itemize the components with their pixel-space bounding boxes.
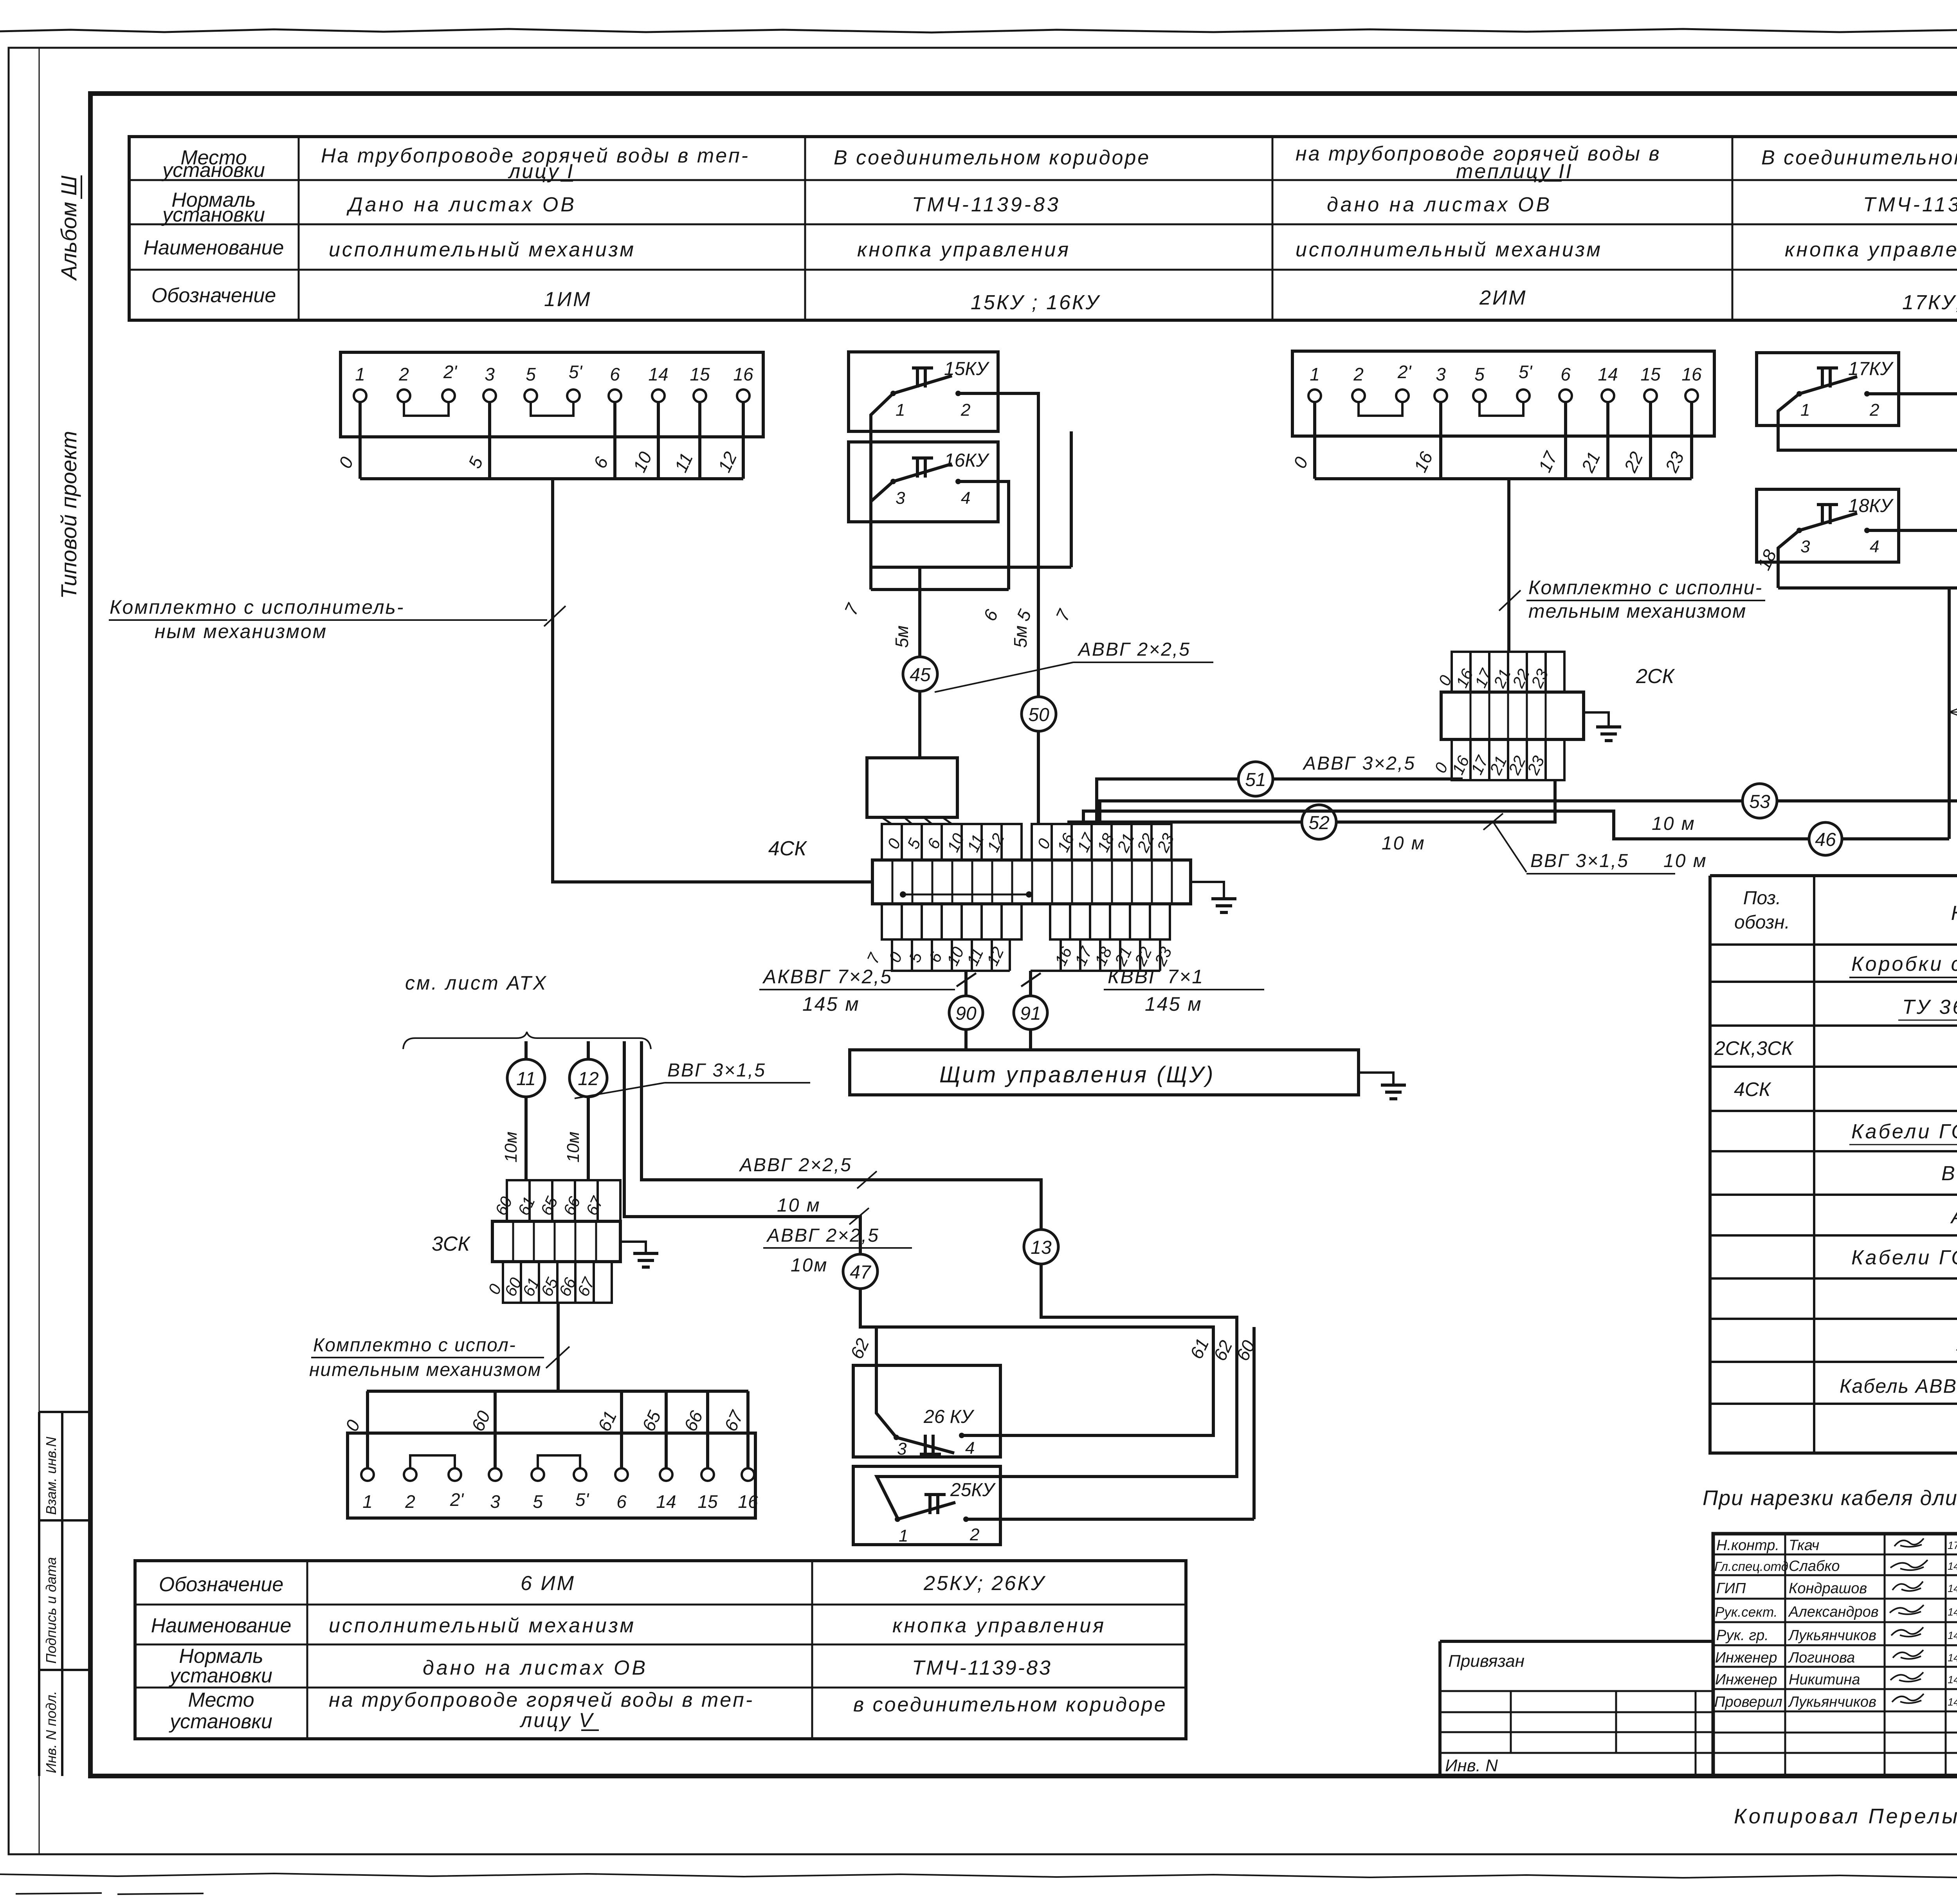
upper tabs <box>507 1180 620 1221</box>
wire 47 to 26КУ contact 3 <box>860 1289 896 1437</box>
bus under 16КУ <box>871 588 1009 591</box>
wire 15КУ contact1 down <box>871 393 893 567</box>
svg-text:16: 16 <box>738 1491 758 1512</box>
svg-text:14.01.86: 14.01.86 <box>1948 1583 1957 1594</box>
svg-text:14: 14 <box>648 364 668 384</box>
upper tabs <box>1452 652 1564 692</box>
ground of 4СК <box>1191 882 1224 899</box>
svg-text:исполнительный механизм: исполнительный механизм <box>329 238 636 261</box>
svg-text:145 м: 145 м <box>1145 993 1202 1015</box>
svg-text:Комплектно с испол-: Комплектно с испол- <box>313 1335 516 1356</box>
strip <box>1441 692 1584 739</box>
svg-text:ТУ 36. 1753-75: ТУ 36. 1753-75 <box>1902 996 1957 1019</box>
svg-text:установки: установки <box>161 204 265 226</box>
svg-text:4СК: 4СК <box>768 837 807 860</box>
svg-text:53: 53 <box>1749 792 1770 812</box>
svg-text:Инв. N подл.: Инв. N подл. <box>43 1691 59 1773</box>
svg-text:лицу V: лицу V <box>519 1709 594 1732</box>
svg-text:5м: 5м <box>892 626 912 648</box>
upper tabs left group <box>882 824 1022 860</box>
wire to circle 45 <box>918 567 921 758</box>
svg-text:1: 1 <box>1310 364 1320 384</box>
cable slash <box>1021 973 1041 986</box>
binding margin line <box>39 48 40 1854</box>
svg-text:Наименование: Наименование <box>1951 902 1957 925</box>
wire 62: 13 to 25КУ <box>877 1264 1237 1518</box>
svg-text:установки: установки <box>169 1710 272 1733</box>
svg-text:Наименование: Наименование <box>144 236 284 259</box>
svg-text:Комплектно с исполни-: Комплектно с исполни- <box>1528 577 1762 599</box>
svg-text:ВВГ 3×1,5 -0,66: ВВГ 3×1,5 -0,66 <box>1941 1162 1957 1185</box>
svg-text:6: 6 <box>616 1491 627 1512</box>
curly bracket <box>403 1032 651 1049</box>
svg-text:Альбом Ш: Альбом Ш <box>56 175 81 281</box>
svg-text:14: 14 <box>1598 364 1618 384</box>
bus of 1ИМ <box>360 477 743 480</box>
svg-text:2: 2 <box>969 1525 979 1544</box>
svg-text:16: 16 <box>733 364 753 384</box>
svg-text:Место: Место <box>188 1689 254 1711</box>
svg-text:Кондрашов: Кондрашов <box>1789 1580 1867 1597</box>
lower tabs right group <box>1050 904 1170 939</box>
svg-text:6: 6 <box>1561 364 1571 384</box>
cable mark circle 11 <box>507 1059 545 1097</box>
svg-text:4: 4 <box>1870 537 1879 556</box>
svg-text:В соединительном коридоре: В соединительном коридоре <box>834 146 1150 169</box>
wire 47 upper run АВВГ 2x2,5 <box>624 1041 860 1254</box>
svg-text:10 м: 10 м <box>777 1195 821 1216</box>
cable span arrow <box>1949 705 1957 719</box>
cable 2ИМ to 2СК <box>1507 479 1510 652</box>
svg-text:26 КУ: 26 КУ <box>923 1406 975 1427</box>
svg-text:14.01.86: 14.01.86 <box>1948 1696 1957 1708</box>
svg-text:14: 14 <box>656 1491 676 1512</box>
svg-text:11: 11 <box>516 1069 536 1089</box>
wire 15КУ contact2 down to 4СК <box>958 393 1038 824</box>
svg-text:1: 1 <box>1800 400 1810 420</box>
svg-text:установки: установки <box>161 159 265 182</box>
svg-text:90: 90 <box>955 1003 977 1024</box>
svg-text:3: 3 <box>896 489 905 508</box>
svg-text:15КУ ; 16КУ: 15КУ ; 16КУ <box>971 291 1101 314</box>
svg-text:17КУ; 18КУ: 17КУ; 18КУ <box>1902 291 1957 314</box>
wire 51: 4СК to 2СК <box>1097 779 1461 824</box>
bus of КУ wires <box>1778 586 1957 590</box>
svg-text:52: 52 <box>1308 813 1329 833</box>
funnel to cable 90 <box>892 939 1010 971</box>
svg-text:Лукьянчиков: Лукьянчиков <box>1788 1694 1876 1710</box>
svg-text:АКВВГ 7×2,5: АКВВГ 7×2,5 <box>762 966 892 988</box>
svg-text:Наименование: Наименование <box>151 1614 292 1637</box>
svg-text:2: 2 <box>405 1491 415 1512</box>
svg-text:исполнительный механизм: исполнительный механизм <box>1296 238 1602 261</box>
svg-text:Обозначение: Обозначение <box>159 1573 284 1596</box>
cable slash <box>957 973 976 986</box>
terminal circles <box>354 389 750 402</box>
svg-text:14.01.86: 14.01.86 <box>1948 1674 1957 1686</box>
terminal strip <box>872 860 1191 904</box>
svg-text:2: 2 <box>398 364 409 384</box>
svg-text:10м: 10м <box>564 1132 583 1163</box>
lower tabs left group <box>882 904 1022 939</box>
wire 16КУ contact4 down <box>958 481 1009 590</box>
svg-text:2': 2' <box>450 1489 465 1510</box>
svg-text:25КУ; 26КУ: 25КУ; 26КУ <box>923 1572 1046 1595</box>
svg-text:15: 15 <box>1640 364 1661 384</box>
svg-text:12: 12 <box>578 1069 598 1089</box>
cable 1ИМ to 4СК <box>553 479 872 882</box>
cable slash and label ВВГ 3x1,5 <box>1483 813 1503 830</box>
svg-text:50: 50 <box>1028 705 1049 725</box>
svg-text:Гл.спец.отд: Гл.спец.отд <box>1714 1559 1788 1574</box>
svg-text:10 м: 10 м <box>1652 813 1696 834</box>
svg-text:КВВГ 7×1: КВВГ 7×1 <box>1108 966 1204 988</box>
svg-text:17.01.86: 17.01.86 <box>1948 1540 1957 1551</box>
actuator (inverted) <box>920 1435 941 1454</box>
svg-text:АВВГ 2×2,5: АВВГ 2×2,5 <box>766 1225 879 1246</box>
svg-text:2: 2 <box>960 400 970 420</box>
jumper 5-5' <box>538 1455 580 1468</box>
svg-text:3: 3 <box>897 1439 907 1459</box>
svg-text:АВВГ 3× 2,5- 0,66: АВВГ 3× 2,5- 0,66 <box>1950 1205 1957 1228</box>
bus under 15КУ <box>871 566 1071 569</box>
signature table <box>1713 1554 1957 1753</box>
svg-text:5: 5 <box>533 1491 543 1512</box>
svg-text:Рук. гр.: Рук. гр. <box>1716 1627 1769 1644</box>
signatures <box>1890 1538 1928 1703</box>
svg-text:2': 2' <box>1397 362 1412 382</box>
svg-text:14.01.86: 14.01.86 <box>1948 1560 1957 1572</box>
svg-text:2: 2 <box>1353 364 1364 384</box>
bus of 6ИМ <box>367 1390 748 1393</box>
svg-text:Обозначение: Обозначение <box>151 284 276 307</box>
svg-text:ГИП: ГИП <box>1716 1580 1746 1597</box>
svg-text:4: 4 <box>961 489 970 508</box>
wire 17 from 18КУ contact4 <box>1867 530 1957 588</box>
svg-text:ТМЧ-1139-83: ТМЧ-1139-83 <box>1863 193 1957 216</box>
funnel to cable 91 <box>1061 939 1160 971</box>
svg-text:Никитина: Никитина <box>1789 1671 1860 1688</box>
svg-text:15: 15 <box>697 1491 718 1512</box>
svg-text:Ткач: Ткач <box>1789 1537 1819 1554</box>
svg-text:14.01.86: 14.01.86 <box>1948 1652 1957 1664</box>
torn paper edge top <box>0 29 1957 39</box>
svg-text:2: 2 <box>1869 400 1879 420</box>
svg-text:При нарезки кабеля длины: При нарезки кабеля длины трасс уточнить … <box>1703 1486 1957 1510</box>
cable mark circle 45 <box>903 657 937 691</box>
lower tabs <box>503 1262 612 1303</box>
svg-text:5: 5 <box>1474 364 1485 384</box>
cable mark circle 50 <box>1022 697 1056 731</box>
wire 61: bundle to 26КУ contact 4 <box>876 1327 1213 1435</box>
svg-text:ным механизмом: ным механизмом <box>155 620 327 642</box>
svg-text:кнопка управления: кнопка управления <box>1785 238 1957 261</box>
svg-text:16: 16 <box>1681 364 1702 384</box>
svg-text:Н.контр.: Н.контр. <box>1716 1537 1779 1554</box>
jumper 2-2' <box>1359 402 1402 416</box>
wire 60 riser <box>1252 1327 1256 1519</box>
svg-text:В соединительном коридоре: В соединительном коридоре <box>1761 146 1957 169</box>
wire 18 from 17КУ contact1 <box>1778 394 1957 588</box>
svg-text:тельным механизмом: тельным механизмом <box>1528 600 1746 622</box>
svg-text:Типовой проект: Типовой проект <box>56 431 81 599</box>
svg-text:установки: установки <box>169 1664 272 1687</box>
wire 12 vertical <box>587 1041 590 1180</box>
svg-text:Логинова: Логинова <box>1788 1650 1855 1666</box>
jumper 5-5' <box>1479 402 1523 416</box>
control panel Щит управления <box>850 1050 1359 1095</box>
svg-text:ТМЧ-1139-83: ТМЧ-1139-83 <box>912 193 1061 216</box>
wires from terminals to bus <box>360 402 743 479</box>
svg-text:91: 91 <box>1020 1003 1041 1024</box>
ground of 2СК <box>1584 712 1609 727</box>
svg-text:нительным механизмом: нительным механизмом <box>309 1359 542 1380</box>
revision grid <box>1440 1691 1713 1776</box>
svg-text:3: 3 <box>1436 364 1446 384</box>
wires from bus down to 6ИМ terminals <box>368 1391 748 1468</box>
svg-text:Привязан: Привязан <box>1448 1652 1525 1671</box>
ground of 3СК <box>620 1242 646 1253</box>
torn paper edge bottom <box>0 1873 1957 1879</box>
strip <box>492 1221 620 1262</box>
Привязан box <box>1440 1641 1713 1776</box>
svg-text:АВВГ 2×2,5: АВВГ 2×2,5 <box>739 1155 852 1176</box>
svg-text:Инженер: Инженер <box>1715 1650 1777 1666</box>
cable mark circle 47 <box>843 1254 878 1289</box>
svg-text:Проверил: Проверил <box>1714 1694 1782 1710</box>
svg-text:Подпись и дата: Подпись и дата <box>43 1557 59 1664</box>
short torn mark bottom left <box>16 1893 204 1894</box>
wire 46 <box>1083 811 1949 839</box>
svg-text:ВВГ 3×1,5: ВВГ 3×1,5 <box>667 1060 766 1081</box>
svg-text:на трубопроводе горячей вод: на трубопроводе горячей воды в теп- <box>329 1689 754 1711</box>
bus of 2ИМ <box>1315 477 1692 480</box>
svg-text:Лукьянчиков: Лукьянчиков <box>1788 1627 1876 1644</box>
svg-text:Взам. инв.N: Взам. инв.N <box>43 1436 59 1515</box>
svg-text:АВВГ 2×2,5: АВВГ 2×2,5 <box>1077 639 1191 660</box>
wire 13 upper run АВВГ 2x2,5 <box>642 1041 1041 1230</box>
lower tabs <box>1452 739 1564 780</box>
bundle box <box>867 758 957 817</box>
svg-text:6: 6 <box>610 364 620 384</box>
svg-text:5': 5' <box>569 362 583 382</box>
svg-text:16КУ: 16КУ <box>944 450 990 471</box>
svg-text:2ИМ: 2ИМ <box>1479 287 1527 309</box>
ground of ЩУ <box>1359 1073 1393 1085</box>
svg-text:обозн.: обозн. <box>1734 912 1790 933</box>
svg-text:10м: 10м <box>501 1132 521 1163</box>
svg-text:13: 13 <box>1031 1237 1052 1258</box>
svg-text:51: 51 <box>1245 770 1266 790</box>
svg-text:5м: 5м <box>1010 626 1031 648</box>
svg-text:см. лист АТХ: см. лист АТХ <box>405 972 548 994</box>
svg-text:Поз.: Поз. <box>1743 888 1781 909</box>
svg-text:2СК,3СК: 2СК,3СК <box>1714 1037 1794 1059</box>
svg-text:10 м: 10 м <box>1382 833 1425 854</box>
svg-text:2': 2' <box>443 362 458 382</box>
jumper 5-5' <box>531 402 573 416</box>
svg-text:10м: 10м <box>791 1255 828 1276</box>
svg-text:Кабель АВВГ 2×2,5-0,66 ГОСТ: Кабель АВВГ 2×2,5-0,66 ГОСТ 16442-80 <box>1840 1375 1957 1397</box>
svg-text:47: 47 <box>850 1262 872 1283</box>
svg-text:45: 45 <box>910 665 931 685</box>
svg-text:Инв. N: Инв. N <box>1445 1756 1498 1775</box>
cable to ЩУ right <box>1029 971 1032 1050</box>
svg-text:25КУ: 25КУ <box>950 1480 996 1500</box>
svg-text:14.01.86: 14.01.86 <box>1948 1630 1957 1641</box>
stub from 15КУ box bottom right <box>1070 431 1073 567</box>
svg-text:1: 1 <box>899 1526 908 1545</box>
cable 3СК to 6ИМ <box>557 1303 560 1391</box>
svg-text:Кабели ГОСТ 16442-80: Кабели ГОСТ 16442-80 <box>1851 1120 1957 1143</box>
cable down left <box>1948 588 1951 839</box>
svg-text:5': 5' <box>1519 362 1533 382</box>
cable mark circle 13 <box>1024 1230 1058 1264</box>
svg-text:46: 46 <box>1815 829 1836 850</box>
svg-text:кнопка управления: кнопка управления <box>892 1614 1106 1637</box>
svg-text:1: 1 <box>355 364 365 384</box>
cable to ЩУ left <box>964 971 968 1050</box>
svg-text:кнопка управления: кнопка управления <box>857 238 1070 261</box>
svg-text:ВВГ 3×1,5: ВВГ 3×1,5 <box>1530 851 1629 871</box>
svg-text:1ИМ: 1ИМ <box>544 288 591 311</box>
svg-text:4СК: 4СК <box>1734 1078 1771 1100</box>
svg-text:Комплектно с исполнитель-: Комплектно с исполнитель- <box>110 596 405 618</box>
svg-text:3: 3 <box>485 364 495 384</box>
svg-text:Дано на листах ОВ: Дано на листах ОВ <box>346 193 577 216</box>
svg-text:14.01.86: 14.01.86 <box>1948 1606 1957 1618</box>
internal jumper <box>903 894 1029 896</box>
svg-text:Рук.сект.: Рук.сект. <box>1715 1605 1777 1620</box>
left bottom strip boxes <box>39 1412 90 1670</box>
svg-text:Щит управления (ЩУ): Щит управления (ЩУ) <box>939 1062 1215 1087</box>
svg-text:дано на листах ОВ: дано на листах ОВ <box>1327 193 1552 216</box>
svg-text:145 м: 145 м <box>802 993 860 1015</box>
svg-text:лицу I: лицу I <box>508 160 574 183</box>
cable mark circle 91 <box>1014 996 1047 1030</box>
svg-text:1: 1 <box>896 400 905 420</box>
wire 11 vertical <box>524 1041 528 1180</box>
svg-text:Александров: Александров <box>1788 1604 1879 1620</box>
svg-text:в соединительном коридоре: в соединительном коридоре <box>853 1693 1167 1716</box>
cable mark circle 12 <box>569 1059 607 1097</box>
svg-text:Кабели ГОСТ 1508-78: Кабели ГОСТ 1508-78 <box>1851 1246 1957 1269</box>
jumper 2-2' <box>410 1455 455 1468</box>
svg-text:Коробки соединительные: Коробки соединительные <box>1851 953 1957 975</box>
jumper 2-2' <box>404 402 449 416</box>
wire 18 from 18КУ contact3 <box>1778 530 1799 588</box>
contacts and blade <box>890 391 896 396</box>
wire 60: to 25КУ contact 2 <box>966 1518 1254 1521</box>
svg-text:дано на листах ОВ: дано на листах ОВ <box>423 1657 648 1679</box>
svg-text:3: 3 <box>1800 537 1810 556</box>
wire 16КУ contact3 down <box>871 481 893 590</box>
svg-text:3: 3 <box>490 1491 500 1512</box>
svg-text:Копировал Перелыгина: Копировал Перелыгина <box>1734 1805 1957 1828</box>
svg-text:4: 4 <box>965 1439 975 1458</box>
actuator <box>912 368 933 388</box>
wire 52 ВВГ 3x1,5 from 2СК to 4СК <box>1069 780 1555 824</box>
svg-text:5': 5' <box>575 1489 590 1510</box>
upper tabs right group <box>1032 824 1171 860</box>
svg-text:15: 15 <box>690 364 710 384</box>
svg-text:ТМЧ-1139-83: ТМЧ-1139-83 <box>912 1657 1052 1679</box>
1ИМ body <box>341 352 763 437</box>
fan-out slants <box>882 817 952 824</box>
svg-text:1: 1 <box>362 1491 373 1512</box>
svg-text:АВВГ 3×2,5: АВВГ 3×2,5 <box>1302 753 1416 774</box>
svg-text:5: 5 <box>526 364 536 384</box>
wire 53 <box>1100 801 1957 824</box>
svg-text:теплицу II: теплицу II <box>1456 160 1573 183</box>
svg-text:Инженер: Инженер <box>1715 1671 1777 1688</box>
svg-text:6 ИМ: 6 ИМ <box>521 1572 575 1595</box>
svg-text:2СК: 2СК <box>1636 665 1675 688</box>
cable mark circle 90 <box>949 996 983 1030</box>
svg-text:исполнительный механизм: исполнительный механизм <box>329 1614 636 1637</box>
svg-text:10 м: 10 м <box>1663 851 1707 871</box>
svg-text:3СК: 3СК <box>432 1233 471 1255</box>
cable mark circle 51 <box>1238 762 1273 796</box>
wire 16 from 17КУ contact2 <box>1867 394 1957 588</box>
svg-text:Слабко: Слабко <box>1789 1558 1840 1574</box>
